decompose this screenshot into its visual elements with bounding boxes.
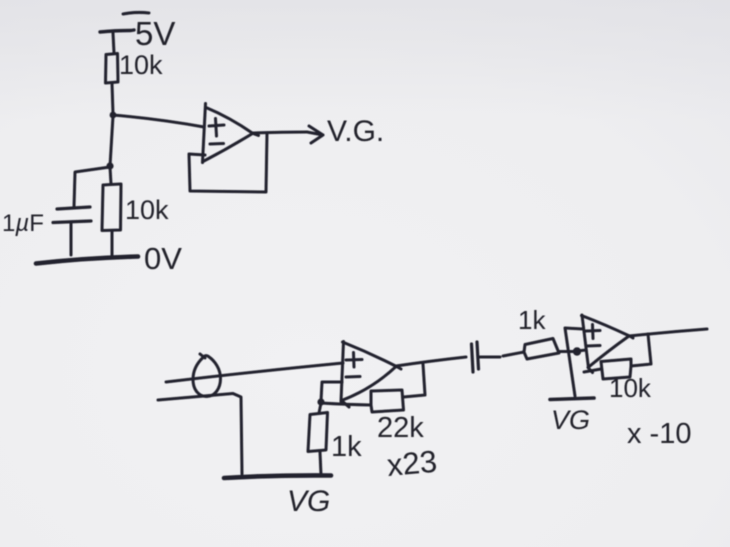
microphone M1 [193, 356, 221, 397]
output wire of U1 [252, 132, 307, 133]
svg-text:10k: 10k [125, 195, 169, 225]
capacitor C2 left plate [472, 344, 474, 372]
U2 minus sign [346, 375, 360, 379]
node B junction dot [106, 162, 113, 169]
U1 minus sign [210, 142, 224, 146]
ground rail 0V [36, 257, 138, 264]
svg-text:VG: VG [551, 405, 590, 435]
wire U2 - input down to node C [321, 382, 342, 401]
capacitor C2 right plate [477, 342, 479, 369]
wire R3 to VG rail [320, 452, 321, 475]
svg-text:VG: VG [287, 485, 330, 518]
wire node B to capacitor C1 [74, 167, 110, 207]
op-amp U3 triangle [582, 315, 589, 368]
svg-text:1k: 1k [331, 431, 362, 463]
feedback tap wire U3 [631, 334, 651, 366]
resistor R5 1k (horizontal box) [524, 339, 559, 360]
wire R4 to output tap [404, 364, 426, 397]
op-amp U2 triangle [341, 342, 344, 402]
input bottom wire [158, 394, 242, 475]
U3 minus sign [586, 344, 600, 348]
svg-text:x -10: x -10 [627, 418, 691, 450]
mic top tick [200, 354, 205, 358]
resistor R6 10k (horizontal box) [601, 359, 631, 379]
wire R1 to node A [112, 83, 113, 114]
op-amp U1 triangle [203, 104, 206, 163]
wire node A down to node B [110, 116, 113, 166]
svg-text:V.G.: V.G. [327, 115, 384, 148]
svg-text:x23: x23 [386, 444, 439, 483]
resistor R1 10k (vertical box) [106, 54, 119, 84]
svg-text:10k: 10k [609, 373, 652, 403]
wire node C to resistor R3 [319, 403, 321, 413]
wire stem from 5V bar to R1 [113, 33, 114, 53]
U2 plus sign [346, 353, 362, 368]
svg-text:0V: 0V [144, 241, 182, 276]
wire R5 to node D [559, 350, 573, 353]
wire node B to resistor R2 [110, 167, 111, 184]
svg-text:5V: 5V [135, 15, 175, 52]
U3 plus sign [586, 325, 600, 339]
svg-text:10k: 10k [119, 50, 163, 80]
wire C1 to ground [70, 223, 73, 255]
resistor R4 22k (horizontal box) [371, 390, 404, 412]
output wire of U2 [396, 357, 466, 366]
wire node A to op-amp U1 + input [113, 115, 204, 127]
svg-text:22k: 22k [377, 412, 424, 444]
wire C2 to resistor R5 [480, 352, 524, 357]
wire node C to feedback resistor R4 [321, 403, 371, 405]
resistor R3 1k (vertical box) [308, 413, 328, 452]
wire R6 to U3 - region [584, 369, 601, 372]
capacitor C1 bottom plate [53, 221, 91, 223]
output wire of U3 [629, 329, 707, 336]
input top wire to U2 [166, 363, 343, 382]
node A junction dot [110, 112, 117, 119]
capacitor C1 top plate [57, 207, 90, 209]
power rail +5V bar [100, 30, 134, 32]
wire R2 to ground [111, 231, 114, 257]
node C junction dot [317, 398, 324, 405]
resistor R2 10k (vertical box) [102, 184, 121, 231]
arrow head on output [307, 126, 323, 143]
svg-text:1µF: 1µF [2, 210, 44, 237]
U1 plus sign [209, 119, 224, 137]
VG rail (right) [550, 398, 594, 400]
feedback loop wire U1 (output to - input) [189, 133, 267, 192]
overline on 5 [123, 12, 149, 14]
VG ground rail (bottom left) [224, 475, 331, 478]
node D junction dot [573, 347, 581, 355]
svg-text:1k: 1k [518, 305, 546, 335]
wire U3 + input to VG rail [565, 328, 583, 396]
